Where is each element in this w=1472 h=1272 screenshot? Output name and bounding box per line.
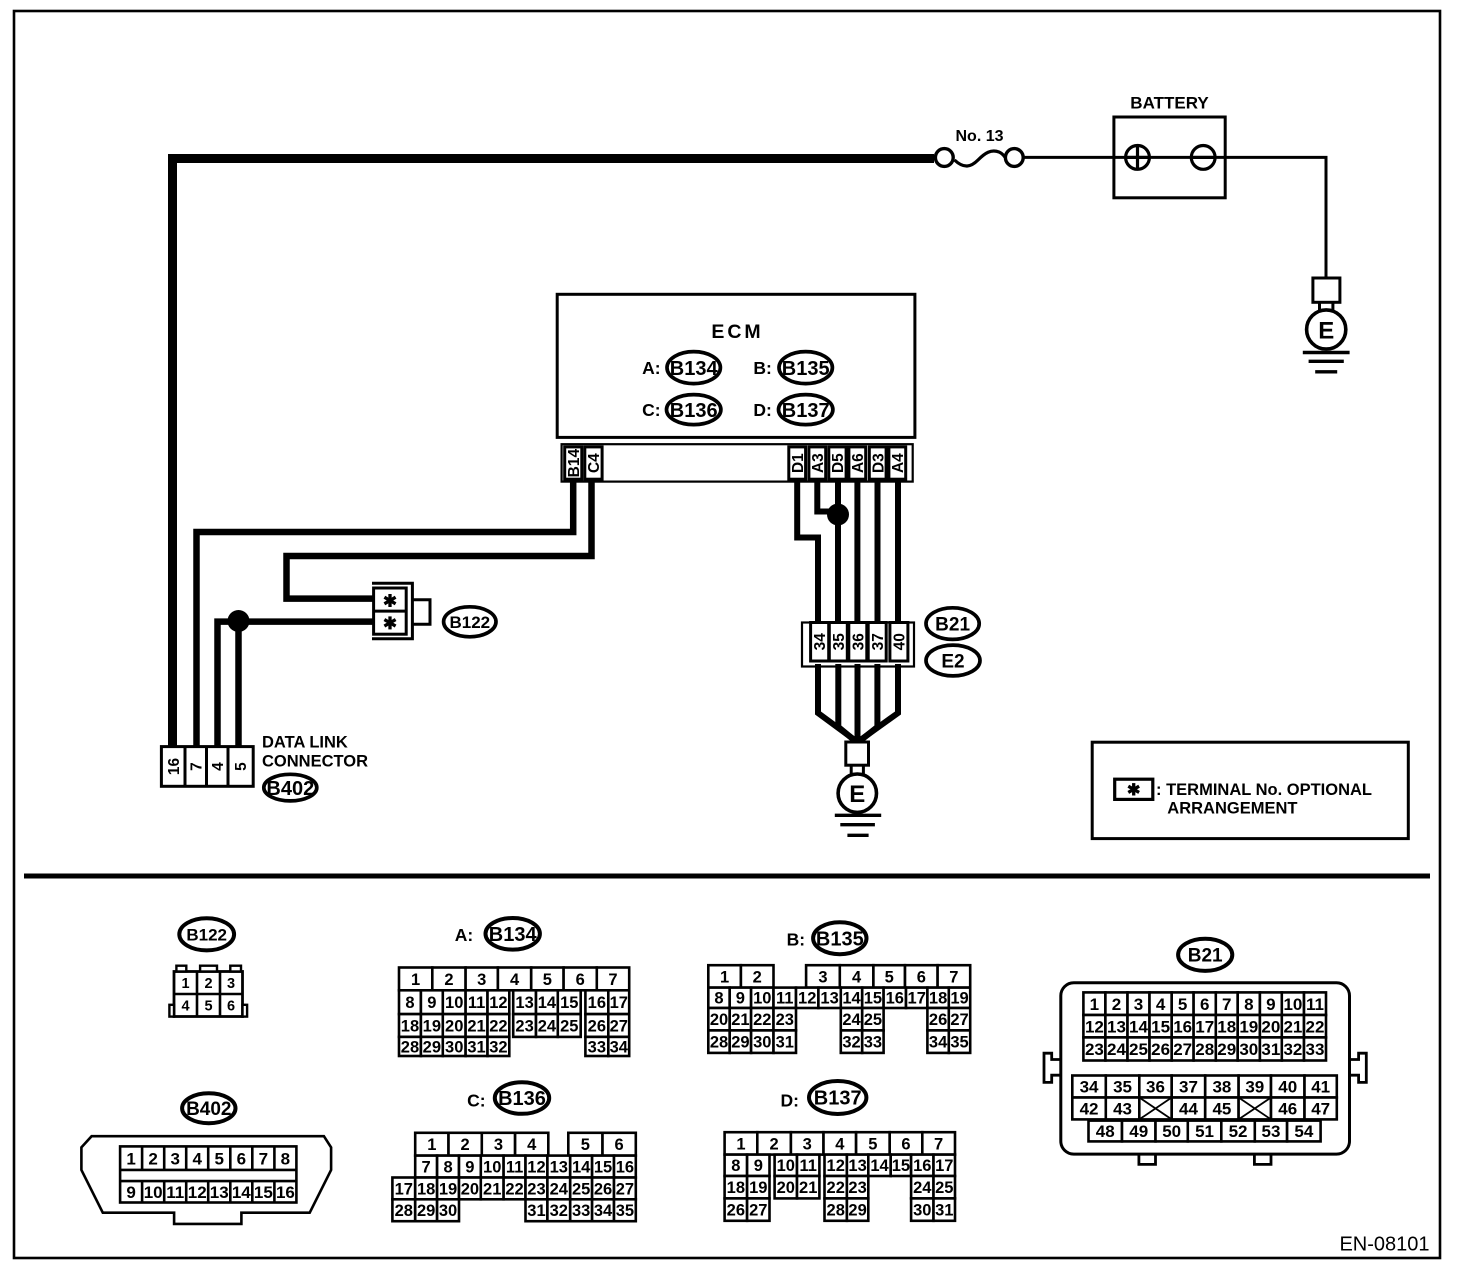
wire battery to ground E (right) [1225, 157, 1326, 278]
svg-text:D1: D1 [790, 453, 807, 473]
svg-text:B137: B137 [814, 1088, 862, 1110]
connector B122 pinout [169, 966, 247, 1017]
svg-text:B14: B14 [566, 449, 583, 478]
svg-text:6: 6 [227, 999, 235, 1015]
ECM connector label C: B136 [642, 395, 721, 425]
svg-text:18: 18 [401, 1017, 419, 1035]
svg-text:33: 33 [1306, 1040, 1325, 1059]
svg-text:27: 27 [749, 1202, 767, 1220]
svg-text:B134: B134 [670, 358, 719, 380]
svg-text:25: 25 [1129, 1040, 1148, 1059]
svg-text:17: 17 [610, 994, 628, 1012]
svg-text:16: 16 [588, 994, 606, 1012]
connector B122 (2-pin, optional terminals) [372, 583, 430, 639]
svg-text:51: 51 [1195, 1122, 1214, 1141]
svg-text:19: 19 [1239, 1017, 1258, 1036]
svg-text:34: 34 [610, 1038, 629, 1056]
svg-text:37: 37 [1179, 1078, 1198, 1097]
svg-text:19: 19 [423, 1017, 441, 1035]
battery [1114, 94, 1225, 198]
B21 pin 34 [811, 623, 830, 662]
svg-text:13: 13 [210, 1183, 229, 1202]
svg-text:29: 29 [731, 1034, 749, 1052]
svg-text:21: 21 [467, 1017, 485, 1035]
svg-text:17: 17 [395, 1180, 413, 1198]
label B402 [264, 774, 317, 801]
svg-text:17: 17 [908, 990, 926, 1008]
svg-text:12: 12 [827, 1157, 845, 1175]
svg-text:27: 27 [1173, 1040, 1192, 1059]
svg-text:35: 35 [950, 1034, 968, 1052]
svg-text:E: E [849, 781, 865, 808]
svg-text:48: 48 [1096, 1122, 1115, 1141]
svg-text:7: 7 [608, 971, 617, 989]
svg-text:23: 23 [527, 1180, 545, 1198]
svg-text:8: 8 [281, 1149, 290, 1168]
svg-text:47: 47 [1311, 1100, 1330, 1119]
svg-text:2: 2 [204, 976, 212, 992]
svg-text:20: 20 [461, 1180, 479, 1198]
svg-text:14: 14 [572, 1158, 591, 1176]
svg-text:14: 14 [842, 990, 861, 1008]
ECM pin row box [562, 444, 913, 481]
svg-text:20: 20 [1261, 1017, 1280, 1036]
svg-text:E2: E2 [941, 651, 964, 672]
svg-text:13: 13 [550, 1158, 568, 1176]
svg-text:B402: B402 [266, 778, 314, 800]
svg-text:40: 40 [891, 633, 908, 650]
svg-text:16: 16 [166, 758, 183, 776]
svg-text:36: 36 [1146, 1078, 1165, 1097]
connector B137 pinout grid [725, 1132, 955, 1221]
svg-text:5: 5 [1178, 995, 1187, 1014]
wire ECM D1 to B21 pin 34 [797, 480, 818, 624]
ground E (below B21) [835, 742, 881, 835]
svg-text:A:: A: [642, 358, 660, 378]
svg-text:4: 4 [181, 999, 189, 1015]
svg-text:EN-08101: EN-08101 [1339, 1234, 1429, 1256]
svg-text:38: 38 [1212, 1078, 1231, 1097]
wire fuse to battery [1024, 156, 1114, 159]
svg-text:25: 25 [572, 1180, 590, 1198]
svg-text:49: 49 [1129, 1122, 1148, 1141]
svg-text:6: 6 [1200, 995, 1209, 1014]
svg-text:16: 16 [886, 990, 904, 1008]
figure number EN-08101 [1339, 1234, 1429, 1256]
svg-text:7: 7 [1222, 995, 1231, 1014]
svg-text:1: 1 [181, 976, 189, 992]
wire ECM D3 to B21 pin 37 [875, 480, 881, 624]
ECM connector label D: B137 [753, 395, 833, 425]
label E2 [926, 645, 980, 676]
wire data link pin 5 to junction [235, 622, 242, 748]
svg-text:16: 16 [913, 1157, 931, 1175]
svg-text:44: 44 [1179, 1100, 1198, 1119]
svg-text:D3: D3 [870, 453, 887, 473]
svg-text:13: 13 [848, 1157, 866, 1175]
svg-text:B:: B: [753, 358, 771, 378]
svg-text:9: 9 [465, 1158, 474, 1176]
svg-text:20: 20 [445, 1017, 463, 1035]
junction node (pins 4/5) [228, 610, 250, 632]
svg-text:11: 11 [1306, 995, 1324, 1014]
svg-text:34: 34 [1080, 1078, 1099, 1097]
svg-text:28: 28 [1195, 1040, 1214, 1059]
svg-text:22: 22 [753, 1011, 771, 1029]
svg-text:25: 25 [935, 1179, 953, 1197]
svg-text:4: 4 [210, 762, 227, 771]
svg-text:46: 46 [1278, 1100, 1297, 1119]
svg-text:1: 1 [1090, 995, 1099, 1014]
svg-text:17: 17 [1195, 1017, 1214, 1036]
svg-text:14: 14 [538, 994, 557, 1012]
svg-text:E: E [1318, 317, 1334, 344]
svg-text:52: 52 [1229, 1122, 1248, 1141]
svg-text:21: 21 [483, 1180, 501, 1198]
svg-text:27: 27 [610, 1017, 628, 1035]
svg-text:25: 25 [864, 1011, 882, 1029]
svg-text:D:: D: [753, 400, 771, 420]
wire from data link connector pin 16 to fuse (battery feed) [173, 159, 935, 749]
svg-text:31: 31 [776, 1034, 794, 1052]
svg-text:14: 14 [1129, 1017, 1148, 1036]
svg-text:26: 26 [594, 1180, 612, 1198]
svg-text:35: 35 [1113, 1078, 1132, 1097]
svg-text:13: 13 [515, 994, 533, 1012]
ECM pin D1 [789, 447, 807, 479]
svg-text:11: 11 [799, 1157, 816, 1175]
label B122 (pinout) [179, 918, 234, 950]
svg-text:30: 30 [445, 1038, 463, 1056]
svg-text:26: 26 [929, 1011, 947, 1029]
svg-text:3: 3 [818, 968, 827, 986]
svg-text:11: 11 [166, 1183, 184, 1202]
svg-text:13: 13 [820, 990, 838, 1008]
svg-text:28: 28 [395, 1202, 413, 1220]
svg-text:7: 7 [934, 1135, 943, 1153]
svg-text:14: 14 [870, 1157, 889, 1175]
label DATA LINK CONNECTOR [262, 734, 368, 771]
wire B21 pin 37 to ground funnel [859, 664, 878, 742]
svg-text:5: 5 [581, 1136, 590, 1154]
svg-text:25: 25 [560, 1017, 578, 1035]
label B21 (pinout) [1178, 939, 1232, 971]
svg-text:4: 4 [852, 968, 862, 986]
svg-text:34: 34 [594, 1202, 613, 1220]
svg-text:4: 4 [1156, 995, 1166, 1014]
svg-text:23: 23 [515, 1017, 533, 1035]
svg-text:13: 13 [1107, 1017, 1126, 1036]
svg-text:23: 23 [1085, 1040, 1104, 1059]
wire B21 pin 40 to ground funnel [859, 664, 898, 741]
svg-text:5: 5 [885, 968, 894, 986]
svg-text:23: 23 [848, 1179, 866, 1197]
svg-text:32: 32 [489, 1038, 507, 1056]
svg-text:50: 50 [1162, 1122, 1181, 1141]
svg-text:53: 53 [1261, 1122, 1280, 1141]
label B: B135 (pinout) [787, 922, 867, 954]
svg-text:5: 5 [215, 1149, 224, 1168]
svg-text:45: 45 [1212, 1100, 1231, 1119]
svg-text:27: 27 [616, 1180, 634, 1198]
svg-text:12: 12 [489, 994, 507, 1012]
svg-text:2: 2 [1112, 995, 1121, 1014]
svg-text:30: 30 [753, 1034, 771, 1052]
svg-text:22: 22 [1306, 1017, 1325, 1036]
ECM connector label B: B135 [753, 352, 832, 384]
svg-text:4: 4 [192, 1149, 202, 1168]
svg-text:B136: B136 [670, 400, 718, 422]
svg-text:27: 27 [950, 1011, 968, 1029]
wire ECM A3 to junction on D5 wire [817, 480, 838, 512]
svg-text:B136: B136 [498, 1088, 546, 1110]
svg-text:16: 16 [276, 1183, 295, 1202]
svg-text:: TERMINAL No. OPTIONAL: : TERMINAL No. OPTIONAL [1156, 781, 1372, 799]
svg-text:No. 13: No. 13 [955, 128, 1003, 145]
svg-text:1: 1 [720, 968, 729, 986]
svg-text:B21: B21 [1188, 946, 1223, 967]
wire data link pin 4 to connector B122 pin (lower) [218, 622, 373, 748]
wire ECM B14 to data link pin 7 [197, 480, 574, 748]
junction node (A3/D5) [827, 504, 849, 526]
svg-text:8: 8 [443, 1158, 452, 1176]
svg-text:29: 29 [423, 1038, 441, 1056]
connector B402 pinout (OBD socket) [81, 1136, 331, 1224]
label D: B137 (pinout) [781, 1081, 867, 1114]
svg-text:18: 18 [1217, 1017, 1236, 1036]
svg-text:A:: A: [455, 925, 473, 945]
svg-text:32: 32 [1283, 1040, 1302, 1059]
svg-text:26: 26 [727, 1202, 745, 1220]
svg-text:4: 4 [527, 1136, 537, 1154]
svg-text:10: 10 [1283, 995, 1302, 1014]
svg-text:24: 24 [550, 1180, 569, 1198]
svg-text:30: 30 [439, 1202, 457, 1220]
svg-text:17: 17 [935, 1157, 953, 1175]
legend: terminal no. optional arrangement [1092, 742, 1408, 838]
svg-text:8: 8 [405, 994, 414, 1012]
svg-text:21: 21 [731, 1011, 749, 1029]
fuse No. 13 [935, 128, 1023, 166]
svg-text:12: 12 [798, 990, 816, 1008]
svg-text:11: 11 [776, 990, 793, 1008]
wire ECM A4 to B21 pin 40 [895, 480, 901, 624]
svg-text:24: 24 [842, 1011, 861, 1029]
svg-text:C4: C4 [586, 453, 603, 473]
connector B21 pinout (54-pin) [1044, 983, 1366, 1165]
svg-text:23: 23 [776, 1011, 794, 1029]
svg-text:10: 10 [777, 1157, 795, 1175]
svg-text:3: 3 [803, 1135, 812, 1153]
svg-text:24: 24 [1107, 1040, 1126, 1059]
svg-text:B137: B137 [782, 400, 830, 422]
wire ECM D5 to B21 pin 35 [835, 480, 841, 624]
svg-text:30: 30 [1239, 1040, 1258, 1059]
svg-text:6: 6 [237, 1149, 246, 1168]
svg-text:15: 15 [864, 990, 882, 1008]
svg-text:7: 7 [422, 1158, 431, 1176]
svg-text:10: 10 [445, 994, 463, 1012]
B21 pin 40 [890, 623, 909, 662]
svg-text:35: 35 [831, 633, 848, 651]
svg-text:39: 39 [1245, 1078, 1264, 1097]
svg-text:6: 6 [901, 1135, 910, 1153]
svg-text:3: 3 [494, 1136, 503, 1154]
svg-text:2: 2 [148, 1149, 157, 1168]
svg-text:10: 10 [753, 990, 771, 1008]
svg-text:37: 37 [870, 633, 887, 650]
svg-text:8: 8 [1244, 995, 1253, 1014]
svg-text:32: 32 [550, 1202, 568, 1220]
ECM pin D3 [869, 447, 887, 479]
svg-text:8: 8 [731, 1157, 740, 1175]
svg-text:6: 6 [576, 971, 585, 989]
svg-text:9: 9 [736, 990, 745, 1008]
svg-text:34: 34 [812, 633, 829, 651]
svg-text:5: 5 [543, 971, 552, 989]
ECM pin B14 [565, 447, 583, 479]
svg-text:32: 32 [842, 1034, 860, 1052]
wire ECM C4 to connector B122 pin (upper) [287, 480, 592, 599]
svg-text:B402: B402 [186, 1099, 231, 1120]
connector B21/E2 row box [802, 623, 914, 667]
svg-text:1: 1 [736, 1135, 745, 1153]
svg-text:9: 9 [427, 994, 436, 1012]
svg-text:C:: C: [642, 400, 660, 420]
wire B21 pin 34 to ground funnel [818, 664, 856, 741]
svg-text:36: 36 [850, 633, 867, 651]
svg-text:31: 31 [527, 1202, 545, 1220]
svg-text:D5: D5 [830, 453, 847, 473]
svg-text:12: 12 [188, 1183, 207, 1202]
svg-text:A6: A6 [850, 453, 867, 473]
label B402 (pinout) [182, 1093, 235, 1123]
ECM pin A6 [849, 447, 867, 479]
svg-text:3: 3 [477, 971, 486, 989]
section divider line [24, 874, 1430, 879]
svg-text:19: 19 [950, 990, 968, 1008]
svg-text:26: 26 [1151, 1040, 1170, 1059]
svg-text:BATTERY: BATTERY [1130, 94, 1209, 113]
B21 pin 35 [829, 623, 848, 662]
svg-text:3: 3 [1134, 995, 1143, 1014]
label B122 [444, 607, 496, 637]
svg-text:22: 22 [489, 1017, 507, 1035]
svg-text:9: 9 [1266, 995, 1275, 1014]
svg-text:24: 24 [538, 1017, 557, 1035]
svg-text:18: 18 [929, 990, 947, 1008]
svg-text:A3: A3 [810, 453, 827, 473]
svg-text:22: 22 [505, 1180, 523, 1198]
ECM box U1 [557, 294, 915, 437]
svg-text:B21: B21 [935, 614, 970, 635]
svg-text:1: 1 [427, 1136, 436, 1154]
svg-text:19: 19 [439, 1180, 457, 1198]
svg-text:7: 7 [188, 762, 205, 771]
svg-text:11: 11 [506, 1158, 523, 1176]
ECM pin D5 [829, 447, 847, 479]
svg-text:33: 33 [864, 1034, 882, 1052]
connector B135 pinout grid [708, 965, 970, 1053]
svg-text:2: 2 [770, 1135, 779, 1153]
ground E (right of battery) [1303, 278, 1350, 372]
svg-text:29: 29 [848, 1202, 866, 1220]
svg-text:B122: B122 [449, 613, 490, 632]
svg-text:6: 6 [917, 968, 926, 986]
svg-text:40: 40 [1278, 1078, 1297, 1097]
svg-text:12: 12 [527, 1158, 545, 1176]
svg-text:15: 15 [594, 1158, 612, 1176]
svg-text:4: 4 [835, 1135, 845, 1153]
svg-text:28: 28 [710, 1034, 728, 1052]
svg-text:42: 42 [1080, 1100, 1099, 1119]
svg-text:B122: B122 [186, 925, 227, 944]
svg-text:3: 3 [170, 1149, 179, 1168]
svg-text:11: 11 [468, 994, 485, 1012]
svg-text:15: 15 [254, 1183, 273, 1202]
svg-text:5: 5 [233, 762, 250, 771]
wire B21 pin 35 to ground funnel [838, 664, 856, 742]
svg-text:30: 30 [913, 1202, 931, 1220]
svg-text:33: 33 [588, 1038, 606, 1056]
svg-text:B134: B134 [489, 924, 538, 946]
label C: B136 (pinout) [467, 1082, 549, 1114]
svg-text:19: 19 [749, 1179, 767, 1197]
svg-text:31: 31 [467, 1038, 485, 1056]
B21 pin 36 [849, 623, 868, 662]
svg-text:33: 33 [572, 1202, 590, 1220]
svg-text:5: 5 [868, 1135, 877, 1153]
svg-text:ARRANGEMENT: ARRANGEMENT [1167, 799, 1297, 817]
svg-text:B135: B135 [782, 358, 830, 380]
svg-text:29: 29 [1217, 1040, 1236, 1059]
svg-text:28: 28 [827, 1202, 845, 1220]
svg-text:6: 6 [615, 1136, 624, 1154]
label A: B134 (pinout) [455, 918, 540, 950]
svg-text:10: 10 [483, 1158, 501, 1176]
svg-text:22: 22 [827, 1179, 845, 1197]
svg-text:31: 31 [1261, 1040, 1280, 1059]
svg-text:24: 24 [913, 1179, 932, 1197]
svg-text:CONNECTOR: CONNECTOR [262, 753, 368, 771]
svg-text:15: 15 [892, 1157, 910, 1175]
ECM pin C4 [585, 447, 603, 479]
svg-text:28: 28 [401, 1038, 419, 1056]
svg-text:16: 16 [1173, 1017, 1192, 1036]
svg-text:7: 7 [949, 968, 958, 986]
svg-text:21: 21 [1283, 1017, 1302, 1036]
svg-text:26: 26 [588, 1017, 606, 1035]
svg-text:14: 14 [232, 1183, 251, 1202]
wire B21 pin 36 to ground [855, 664, 861, 742]
svg-text:9: 9 [754, 1157, 763, 1175]
svg-text:18: 18 [727, 1179, 745, 1197]
svg-text:15: 15 [560, 994, 578, 1012]
svg-text:34: 34 [929, 1034, 948, 1052]
svg-text:35: 35 [616, 1202, 634, 1220]
data link connector B402 box [161, 747, 253, 787]
svg-text:2: 2 [444, 971, 453, 989]
svg-text:A4: A4 [890, 453, 907, 473]
svg-text:B135: B135 [816, 928, 864, 950]
svg-text:41: 41 [1311, 1078, 1330, 1097]
svg-text:10: 10 [144, 1183, 163, 1202]
svg-text:21: 21 [799, 1179, 817, 1197]
label B21 [926, 608, 979, 640]
svg-text:18: 18 [417, 1180, 435, 1198]
svg-text:7: 7 [259, 1149, 268, 1168]
svg-text:5: 5 [204, 999, 212, 1015]
